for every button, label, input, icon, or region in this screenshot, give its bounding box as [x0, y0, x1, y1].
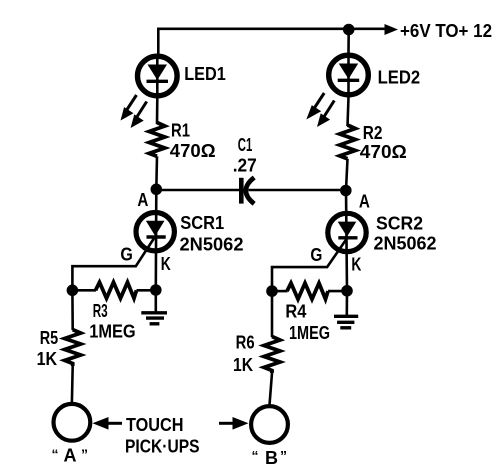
svg-text:1MEG: 1MEG — [89, 322, 136, 342]
wire top rail — [158, 29, 385, 54]
svg-text:LED2: LED2 — [378, 67, 421, 87]
LED D1 (LED1) — [138, 54, 178, 98]
supply arrowhead — [385, 24, 399, 35]
svg-text:R1: R1 — [171, 121, 190, 141]
wire gate SCR2 — [272, 238, 347, 291]
wire R2 to node A right — [346, 159, 348, 190]
wire R6 to pad B — [270, 373, 273, 405]
arrow to pad B — [219, 417, 249, 430]
wire gate node to R5 — [71, 290, 74, 330]
LED2 light arrow 1 — [306, 93, 324, 120]
wire junction to LED2 — [347, 30, 350, 54]
svg-text:1K: 1K — [233, 355, 253, 375]
svg-text:C1: C1 — [238, 135, 253, 155]
wire node A left to C1 — [156, 189, 239, 192]
arrow to pad A — [93, 417, 123, 430]
node supply junction — [343, 24, 355, 36]
svg-text:R6: R6 — [236, 333, 255, 353]
svg-text:K: K — [161, 254, 171, 274]
svg-text:A: A — [359, 192, 370, 212]
touch pad B — [251, 406, 288, 443]
SCR U1 (SCR1) — [136, 190, 174, 290]
svg-text:”: ” — [81, 446, 88, 462]
svg-text:LED1: LED1 — [184, 64, 226, 84]
resistor R4 — [287, 283, 328, 299]
ground right — [334, 291, 358, 328]
svg-text:B: B — [265, 448, 278, 468]
wire R4 to cathode node — [328, 290, 347, 293]
LED1 light arrow 1 — [121, 95, 137, 121]
node A right — [340, 185, 352, 197]
wire gate SCR1 — [72, 238, 154, 291]
wire gate node to R3 — [72, 289, 96, 292]
node A left — [151, 184, 163, 196]
svg-text:+6V TO+ 12: +6V TO+ 12 — [400, 21, 492, 41]
svg-text:470Ω: 470Ω — [360, 142, 407, 162]
node gate right — [266, 285, 278, 297]
svg-text:2N5062: 2N5062 — [180, 234, 244, 254]
svg-text:SCR2: SCR2 — [376, 213, 423, 233]
svg-text:R5: R5 — [40, 328, 59, 348]
resistor R3 — [96, 282, 137, 298]
resistor R1 — [149, 123, 165, 157]
node cathode left — [150, 284, 162, 296]
svg-text:“: “ — [52, 446, 59, 462]
svg-text:.27: .27 — [233, 156, 257, 176]
resistor R5 — [65, 330, 81, 366]
svg-text:A: A — [137, 190, 148, 210]
svg-text:A: A — [64, 446, 77, 466]
SCR U2 (SCR2) — [328, 190, 366, 291]
resistor R6 — [264, 337, 280, 374]
LED D2 (LED2) — [329, 53, 369, 97]
svg-text:”: ” — [280, 448, 287, 464]
wire LED2 to R2 — [348, 97, 349, 126]
svg-text:TOUCH: TOUCH — [126, 415, 184, 435]
svg-text:R3: R3 — [93, 301, 108, 321]
wire R3 to cathode node — [137, 289, 156, 292]
node gate left — [67, 285, 79, 297]
svg-text:1K: 1K — [37, 349, 58, 369]
svg-text:K: K — [351, 255, 361, 275]
svg-text:2N5062: 2N5062 — [374, 234, 437, 254]
node cathode right — [341, 285, 353, 297]
wire LED1 to R1 — [156, 98, 159, 124]
LED1 light arrow 2 — [131, 102, 147, 129]
resistor R2 — [340, 125, 356, 159]
wire C1 to node A right — [249, 189, 348, 192]
svg-text:R2: R2 — [363, 123, 383, 143]
touch pad A — [54, 404, 91, 441]
svg-text:R4: R4 — [285, 302, 306, 322]
capacitor C1 — [241, 178, 254, 204]
LED2 light arrow 2 — [317, 101, 334, 128]
svg-text:G: G — [120, 244, 132, 264]
wire R1 to node A left — [155, 156, 158, 190]
svg-text:SCR1: SCR1 — [180, 213, 224, 233]
svg-text:PICK·UPS: PICK·UPS — [125, 437, 200, 457]
ground left — [141, 290, 167, 324]
svg-text:1MEG: 1MEG — [289, 323, 330, 343]
wire R5 to pad A — [71, 366, 74, 402]
wire gate node to R6 — [271, 291, 274, 337]
svg-text:“: “ — [252, 448, 259, 464]
svg-text:470Ω: 470Ω — [170, 141, 216, 161]
svg-text:G: G — [310, 245, 322, 265]
wire gate node to R4 — [272, 290, 288, 293]
